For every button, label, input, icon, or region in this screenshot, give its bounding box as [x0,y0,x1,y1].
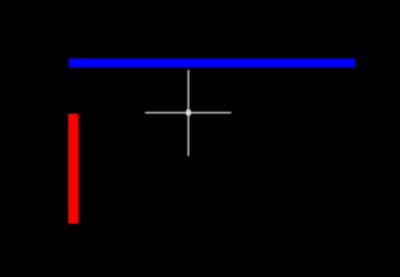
crosshair cursor [145,70,231,156]
crosshair vertical line [187,70,189,156]
red vertical line segment [68,114,78,224]
pickbox [187,110,190,115]
blue horizontal line segment [68,58,354,67]
crosshair horizontal line [145,112,231,114]
